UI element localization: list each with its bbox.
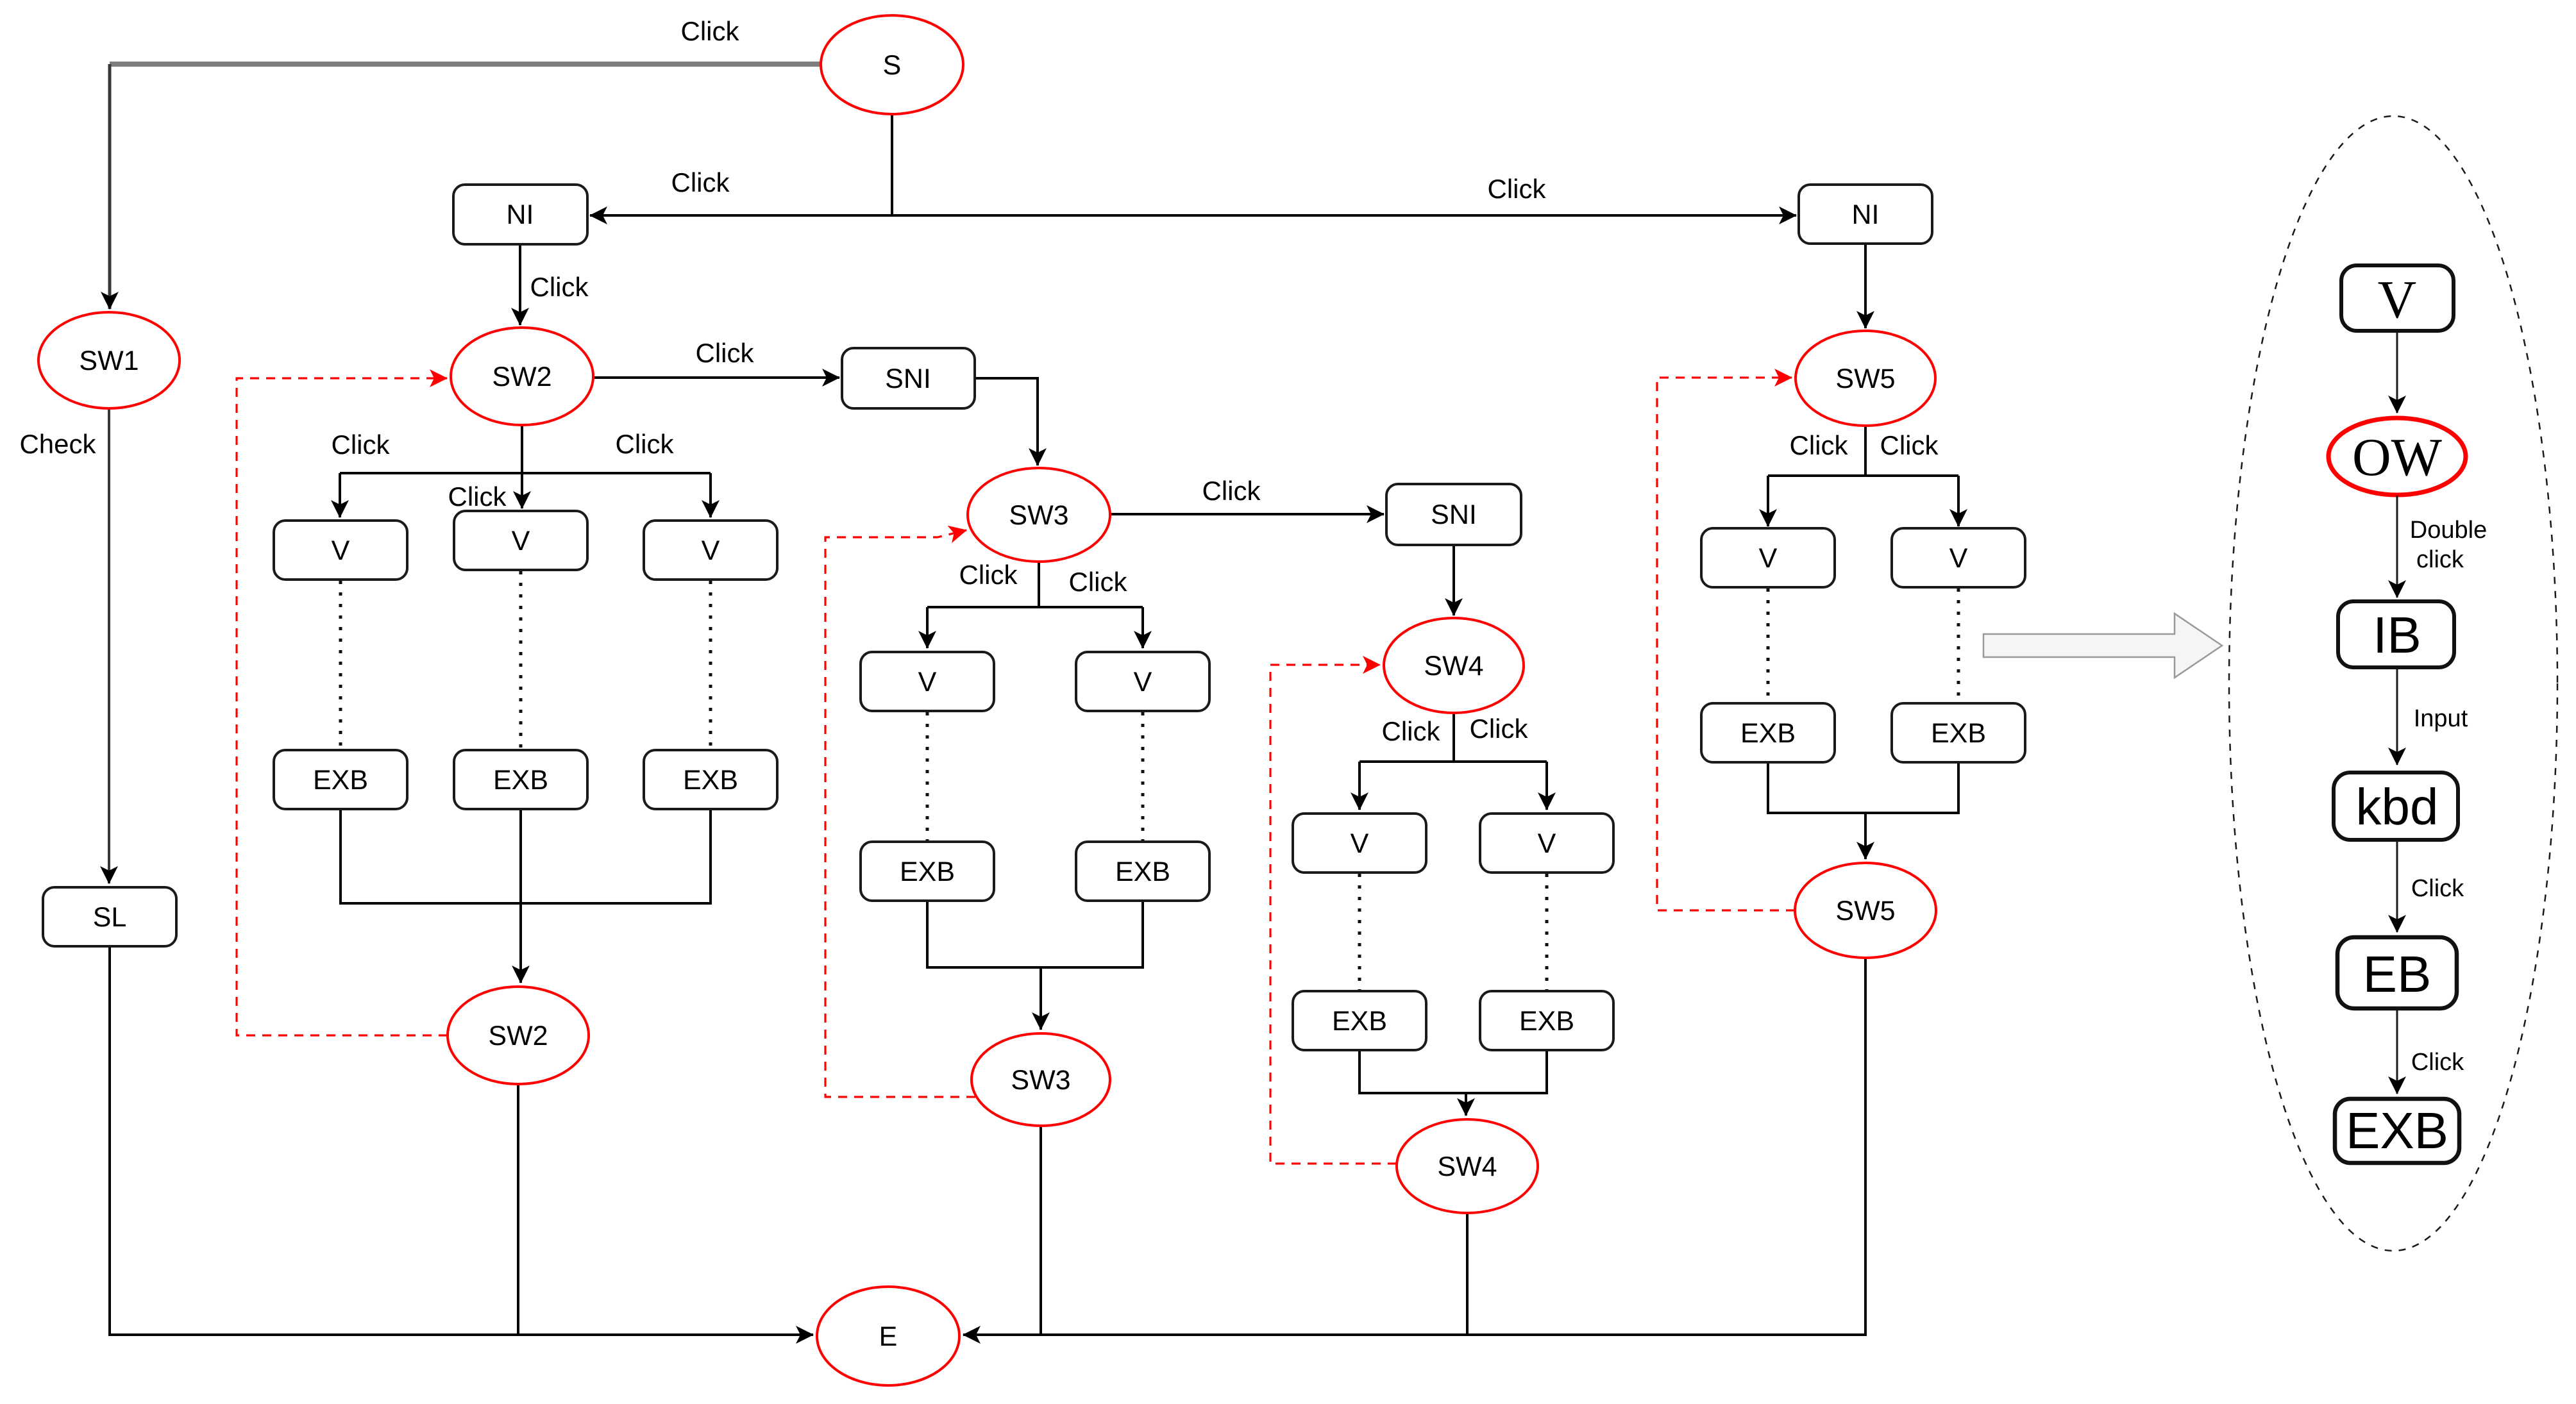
note box EXB [2335,1099,2459,1163]
dotted link V to EXB col1 [339,581,342,749]
wire SNI to SW3 [975,378,1038,465]
svg-text:V: V [2378,270,2417,330]
svg-text:Click: Click [616,429,675,459]
svg-text:Click: Click [1382,716,1441,746]
svg-text:Click: Click [1202,476,1261,506]
box EXB sw4 col2 [1480,991,1613,1050]
wire SW5 bottom down and left to E [963,958,1865,1335]
dotted link V to EXB sw4 col2 [1545,874,1549,990]
svg-text:Click: Click [1790,430,1849,460]
note box EB [2337,937,2457,1008]
wire EXB join under SW4 [1360,1050,1547,1093]
wire EXB join under SW2 [341,809,711,903]
wire join down to SW3 bottom [1040,967,1042,1030]
note wire OW to IB [2396,496,2398,598]
svg-text:Click: Click [1069,567,1128,597]
svg-text:SW5: SW5 [1835,364,1895,394]
svg-text:Click: Click [671,167,730,197]
gray block arrow [1983,614,2222,678]
box SNI 2 [1386,484,1521,545]
svg-text:EXB: EXB [313,765,368,796]
svg-text:E: E [879,1321,898,1352]
wire SW2 branch right arrow [709,473,712,517]
wire SW4 branch split [1360,713,1547,762]
svg-text:IB: IB [2373,606,2421,664]
svg-text:Click: Click [2411,875,2464,902]
state SW4 top [1384,618,1524,713]
svg-text:Click: Click [681,16,740,46]
svg-text:Check: Check [19,429,96,459]
state E [817,1287,959,1385]
dotted link V to EXB col2 [519,571,523,749]
box V sw3 col1 [861,652,994,711]
note box V [2341,265,2454,331]
note wire kbd to EB [2396,841,2398,932]
svg-text:EXB: EXB [1115,857,1170,887]
dotted link V to EXB sw5 col1 [1767,589,1770,702]
svg-text:SW3: SW3 [1009,500,1068,531]
wire S to left corner (gray, Click) [110,62,821,67]
wire SW1 to SL (Check) [108,408,110,883]
svg-text:V: V [702,535,720,566]
box V sw2 col2 [454,511,587,570]
note dashed ellipse [2229,116,2557,1251]
red dashed loop SW2 [237,378,448,1035]
wire SW4 bottom down to end line [1466,1213,1469,1335]
svg-text:SW2: SW2 [492,362,551,392]
svg-text:EXB: EXB [683,765,738,796]
state SW5 top [1796,331,1935,426]
wire SW4 branch left arrow [1358,762,1361,810]
box V sw5 col2 [1892,528,2025,587]
svg-text:Input: Input [2414,705,2468,732]
state SW3 bottom [972,1033,1110,1126]
wire corner down to SW1 [108,64,112,309]
wire join down to SW4 bottom [1465,1093,1467,1116]
svg-text:EXB: EXB [2346,1102,2448,1159]
svg-text:V: V [512,526,530,556]
svg-text:Click: Click [1488,174,1547,204]
wire SW2 branch split [340,425,711,473]
dotted link V to EXB sw3 col2 [1141,712,1145,840]
svg-text:Click: Click [696,338,755,368]
svg-text:NI: NI [1852,199,1880,230]
wire S down to NI row junction [891,114,893,215]
box SL [43,887,176,946]
wire SW4 branch right arrow [1545,762,1548,810]
wire EXB middle down to SW2 bottom [519,809,522,983]
wire junction to NI right [892,214,1796,217]
svg-text:V: V [1538,828,1556,859]
wire join down to SW5 bottom [1864,813,1867,859]
state SW2 bottom [448,987,589,1084]
box SNI 1 [842,348,975,408]
box EXB sw4 col1 [1293,991,1426,1050]
svg-text:OW: OW [2352,428,2443,487]
wire NI left to SW2 [519,244,521,325]
svg-text:EXB: EXB [1740,718,1796,749]
box EXB sw5 col1 [1701,703,1835,762]
svg-text:EXB: EXB [900,857,955,887]
state S [821,15,963,114]
svg-text:V: V [1351,828,1369,859]
dotted link V to EXB col3 [709,581,712,749]
note box IB [2338,601,2454,667]
red dashed loop SW3 [825,530,975,1097]
box EXB sw2 col3 [644,750,777,809]
wire SW3 branch right arrow [1141,607,1144,648]
svg-text:Click: Click [530,272,589,302]
note wire V to OW [2396,332,2398,413]
box V sw5 col1 [1701,528,1835,587]
svg-text:EXB: EXB [1519,1006,1574,1037]
wire EXB join under SW3 [927,901,1143,967]
svg-text:SW4: SW4 [1437,1151,1497,1182]
svg-text:EXB: EXB [493,765,548,796]
dotted link V to EXB sw4 col1 [1358,874,1361,990]
svg-text:EB: EB [2363,946,2432,1003]
wire SW2 branch middle arrow [521,473,523,508]
svg-text:Double: Double [2410,517,2487,544]
svg-text:V: V [332,535,350,566]
wire SW5 branch split [1768,426,1958,476]
box EXB sw3 col1 [861,842,994,901]
svg-text:NI: NI [507,199,534,230]
red dashed loop SW5 [1657,378,1795,910]
svg-text:Click: Click [959,560,1018,590]
svg-text:S: S [883,50,902,81]
state SW2 top [451,328,593,425]
state SW1 [38,312,180,408]
state SW4 bottom [1397,1119,1538,1213]
box V sw2 col1 [274,521,407,580]
svg-text:SW2: SW2 [488,1021,548,1051]
box EXB sw2 col1 [274,750,407,809]
wire SW3 branch left arrow [926,607,929,648]
svg-text:Click: Click [332,430,391,460]
wire SW3 to SNI2 [1110,513,1384,515]
svg-text:V: V [1949,543,1968,574]
wire SW3 branch split [927,562,1143,607]
svg-text:Click: Click [448,481,507,512]
box NI left [453,185,587,244]
box V sw4 col1 [1293,814,1426,873]
svg-text:kbd: kbd [2356,778,2439,835]
note wire IB to kbd [2396,669,2398,765]
svg-text:SW3: SW3 [1011,1065,1070,1096]
red dashed loop SW4 [1270,665,1397,1164]
note box kbd [2334,773,2458,840]
wire SNI2 to SW4 [1452,545,1455,615]
wire NI right to SW5 [1864,244,1867,328]
svg-text:SW1: SW1 [79,346,139,376]
svg-text:EXB: EXB [1931,718,1986,749]
svg-text:SNI: SNI [1431,499,1477,530]
svg-text:SL: SL [93,902,127,933]
svg-text:V: V [1134,667,1152,698]
wire SW2 branch left arrow [339,473,341,517]
svg-text:V: V [1759,543,1778,574]
svg-text:SW4: SW4 [1424,651,1483,681]
svg-text:Click: Click [1880,430,1939,460]
wire junction to NI left [590,214,892,217]
svg-text:click: click [2416,546,2464,573]
box EXB sw5 col2 [1892,703,2025,762]
svg-text:SNI: SNI [885,364,931,394]
wire SW2 bottom down to end line [517,1084,519,1335]
dotted link V to EXB sw5 col2 [1957,589,1960,702]
note wire EB to EXB [2396,1010,2398,1094]
wire SW3 bottom down to end line [1040,1126,1042,1335]
state SW3 top [968,468,1110,562]
box NI right [1799,185,1932,244]
svg-text:Click: Click [2411,1049,2464,1076]
wire SW2 to SNI [593,376,839,379]
svg-text:V: V [918,667,937,698]
box V sw4 col2 [1480,814,1613,873]
wire SW5 branch right arrow [1957,476,1960,526]
wire SL down and right to E [110,946,813,1335]
state SW5 bottom [1795,863,1936,958]
svg-text:SW5: SW5 [1835,896,1895,926]
dotted link V to EXB sw3 col1 [926,712,929,840]
wire SW5 branch left arrow [1767,476,1769,526]
svg-text:EXB: EXB [1332,1006,1387,1037]
box V sw3 col2 [1076,652,1209,711]
note state OW [2328,418,2466,495]
box EXB sw2 col2 [454,750,587,809]
svg-text:Click: Click [1470,714,1529,744]
box V sw2 col3 [644,521,777,580]
wire EXB join under SW5 [1768,762,1958,813]
box EXB sw3 col2 [1076,842,1209,901]
